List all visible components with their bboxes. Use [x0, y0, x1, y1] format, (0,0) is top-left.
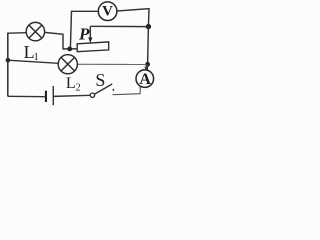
voltmeter U1 V — [98, 2, 117, 21]
wire node D to lamp L2 left — [8, 60, 59, 63]
lamp L1 — [26, 22, 44, 40]
wire L2 right to node C — [77, 63, 147, 65]
rheostat R1 body — [77, 42, 109, 52]
svg-text:A: A — [139, 71, 151, 88]
wire voltmeter left terminal down to node A — [70, 11, 98, 47]
node D junction dot on left rail — [6, 58, 11, 63]
switch S1 pivot — [90, 93, 94, 97]
wire switch to ammeter bottom — [113, 86, 141, 95]
wire slider tap to right rail — [90, 25, 148, 27]
ammeter top contact wedge — [144, 67, 148, 71]
node C junction dot (L2 right / ammeter) — [145, 62, 150, 67]
svg-text:V: V — [102, 3, 113, 19]
svg-text:L: L — [66, 75, 76, 92]
wire bottom-left to battery — [8, 95, 45, 97]
battery BT1 negative plate (short thick) — [45, 91, 47, 102]
wire left rail vertical — [7, 33, 9, 97]
svg-text:S: S — [95, 70, 105, 90]
wire right rail vertical — [147, 27, 150, 65]
wire voltmeter right to right rail — [117, 9, 149, 27]
wire battery to switch — [54, 95, 90, 96]
battery BT1 positive plate (long thin) — [53, 86, 54, 105]
ammeter U2 A — [136, 70, 154, 88]
wire from L1 right, elbow down to node A — [45, 32, 78, 49]
svg-text:2: 2 — [76, 82, 81, 93]
svg-text:P: P — [78, 24, 90, 43]
wire top-left horizontal to lamp L1 — [8, 32, 27, 35]
node B junction dot (tap / V right) — [146, 24, 151, 29]
wire node C down to ammeter top — [146, 64, 148, 70]
lamp L2 — [58, 55, 77, 74]
switch S1 right contact — [112, 89, 114, 91]
rheostat slider arrow — [88, 26, 92, 43]
node A junction dot — [67, 47, 72, 52]
switch S1 lever — [95, 84, 113, 94]
